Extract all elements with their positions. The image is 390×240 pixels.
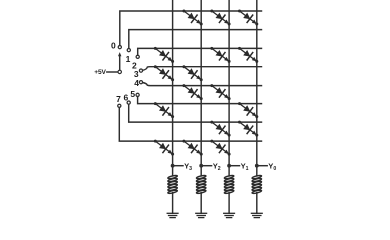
ground Y3 [167, 213, 178, 217]
switch contact 6 [127, 101, 130, 104]
diode row7 to Y2 [182, 140, 202, 156]
diode row3 to Y2 [182, 65, 202, 81]
wire column Y2 vertical [200, 0, 202, 176]
wire row 5 from contact 5 [138, 97, 262, 104]
diode row4 to Y1 [210, 84, 230, 100]
svg-text:0: 0 [111, 41, 116, 51]
ground Y2 [196, 213, 207, 217]
diode row2 to Y1 [210, 47, 230, 63]
svg-text:6: 6 [124, 93, 129, 103]
wire Y1 tap [229, 165, 239, 167]
wire row 2 from contact 2 [138, 48, 262, 55]
wire coil Y1 to ground [228, 193, 230, 214]
switch pole contact [118, 70, 121, 73]
wire row 4 from contact 4 [143, 83, 262, 86]
wire row 3 from contact 3 [143, 67, 262, 71]
wire column Y3 vertical [172, 0, 174, 176]
diode row5 to Y3 [154, 102, 174, 118]
switch contact 4 [139, 81, 142, 84]
switch contact 5 [136, 93, 139, 96]
inductor coil Y2 [196, 175, 206, 194]
diode row6 to Y1 [210, 121, 230, 137]
diode row4 to Y2 [182, 84, 202, 100]
switch contact 2 [136, 55, 139, 58]
wire row 0 from contact 0 [120, 11, 262, 45]
svg-text:4: 4 [134, 78, 139, 88]
wire coil Y3 to ground [172, 193, 174, 214]
diode row6 to Y0 [238, 121, 258, 137]
inductor coil Y0 [252, 175, 262, 194]
wire row 1 from contact 1 [129, 30, 262, 49]
wire row 7 from contact 7 [119, 108, 261, 142]
ground Y1 [224, 213, 235, 217]
wire Y3 tap [173, 165, 183, 167]
diode row0 to Y2 [182, 10, 202, 26]
diode row3 to Y3 [154, 65, 174, 81]
svg-text:5: 5 [130, 89, 135, 99]
wire coil Y0 to ground [256, 193, 258, 214]
diode row0 to Y0 [238, 10, 258, 26]
svg-text:Y2: Y2 [213, 161, 221, 172]
wire column Y0 vertical [256, 0, 258, 176]
diode row2 to Y3 [154, 47, 174, 63]
inductor coil Y3 [168, 175, 178, 194]
node Y1 junction [227, 164, 231, 168]
wire Y2 tap [201, 165, 211, 167]
node Y3 junction [171, 164, 175, 168]
inductor coil Y1 [224, 175, 234, 194]
switch wiper arm pointing at contact 0 [119, 56, 121, 71]
wire +5V to switch pole [107, 71, 118, 73]
diode row7 to Y1 [210, 140, 230, 156]
node Y2 junction [199, 164, 203, 168]
diode row5 to Y0 [238, 102, 258, 118]
wire column Y1 vertical [228, 0, 230, 176]
diode row0 to Y1 [210, 10, 230, 26]
svg-text:Y3: Y3 [184, 161, 192, 172]
switch contact 0 [118, 46, 121, 49]
wire coil Y2 to ground [200, 193, 202, 214]
wire Y0 tap [257, 165, 267, 167]
svg-text:Y0: Y0 [268, 161, 276, 172]
svg-text:Y1: Y1 [241, 161, 249, 172]
wire row 6 from contact 6 [129, 104, 262, 122]
switch contact 7 [118, 104, 121, 107]
svg-text:1: 1 [126, 54, 131, 64]
node Y0 junction [255, 164, 259, 168]
switch contact 1 [127, 49, 130, 52]
diode row7 to Y3 [154, 140, 174, 156]
svg-text:7: 7 [116, 94, 121, 104]
svg-text:+5V: +5V [94, 69, 106, 76]
ground Y0 [251, 213, 262, 217]
diode row2 to Y0 [238, 47, 258, 63]
switch contact 3 [139, 69, 142, 72]
